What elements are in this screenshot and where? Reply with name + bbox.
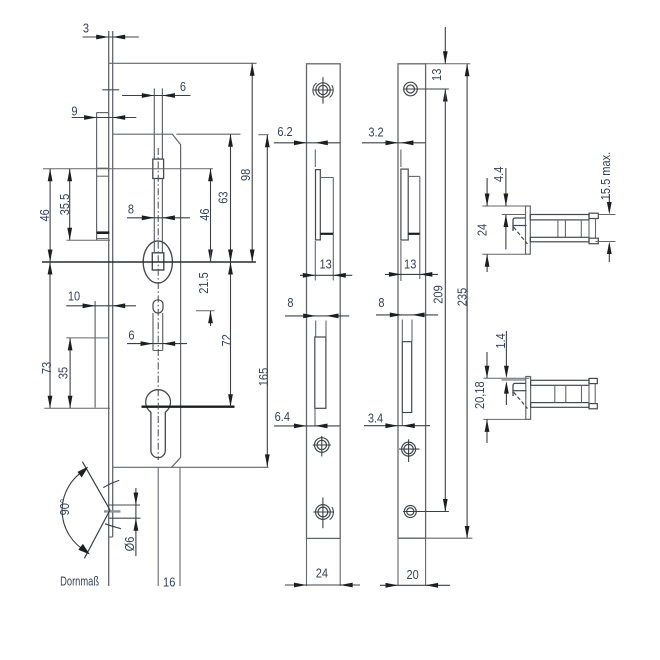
svg-text:209: 209	[430, 285, 445, 304]
dim 209 line	[444, 89, 446, 512]
plate2 screw hole middle	[404, 444, 413, 453]
svg-text:35: 35	[55, 367, 70, 380]
ext line top d2	[483, 377, 529, 379]
centerline extended below case (16 dim)	[157, 467, 159, 586]
svg-text:4.4: 4.4	[491, 166, 506, 182]
90deg arc	[62, 471, 85, 551]
euro profile cylinder hole	[146, 390, 171, 458]
plate1 lower slot	[315, 321, 317, 337]
detail2 bolt ladder	[531, 380, 589, 385]
dim 8 upper slot square	[127, 217, 190, 219]
dim 4.4	[505, 168, 507, 206]
detail2 right flange bottom tab	[589, 404, 597, 409]
svg-text:13: 13	[404, 257, 417, 272]
ext line top	[482, 205, 525, 207]
plate2 top extension line	[426, 63, 471, 65]
svg-text:1.4: 1.4	[493, 333, 508, 349]
svg-text:3.2: 3.2	[368, 124, 384, 139]
cover strip divider 2	[97, 175, 109, 177]
upper slot right line lower part	[161, 179, 163, 253]
extension line y=310.8 for 21.5	[196, 310, 215, 312]
follower 8mm square hole	[152, 253, 164, 270]
tick across upper leg	[103, 480, 119, 487]
plate2 bottom + dim 20	[398, 537, 472, 539]
faceplate front edge (full height)	[108, 31, 110, 586]
thick reference line y=406.7 (72/35/73 bottom)	[142, 406, 235, 408]
svg-text:21.5: 21.5	[196, 272, 211, 294]
lock case outline top/right	[113, 134, 181, 467]
plate1 screw hole bottom	[318, 507, 328, 517]
cover strip divider 1	[97, 167, 109, 169]
Ø6 centerline tick (thick gray)	[104, 510, 121, 512]
small oval hole (capsule)	[153, 300, 163, 313]
svg-text:165: 165	[256, 368, 271, 387]
dim 15.5 max	[598, 214, 615, 216]
90deg leg upper	[82, 462, 110, 510]
lower slot left line	[152, 313, 154, 351]
extension line y=168.7 (46/35.5 top ref)	[43, 168, 213, 170]
ext line bottom	[482, 253, 525, 255]
plate2 screw hole top	[407, 85, 415, 93]
svg-text:72: 72	[219, 334, 234, 347]
dim 98	[251, 63, 253, 262]
cover strip left edge	[96, 113, 98, 241]
dim 13 top right	[444, 27, 446, 64]
ext line bottom d2	[483, 418, 530, 420]
follower horizontal centerline y=262	[42, 261, 256, 263]
case bottom edge + extension for 165	[113, 466, 269, 468]
front element edge (10 dim)	[94, 301, 96, 408]
vertical dash-dot centerline	[157, 148, 159, 460]
detail1 right flange top tab	[589, 213, 598, 218]
plate1 latch lip and opening	[314, 150, 316, 168]
upper slot left line lower part	[153, 179, 155, 253]
lower slot right line	[162, 313, 164, 351]
dim 6.2	[274, 142, 340, 144]
svg-text:24: 24	[316, 565, 329, 580]
dim 35.5	[69, 169, 71, 241]
svg-text:Ø6: Ø6	[122, 536, 137, 551]
svg-text:Dornmaß: Dornmaß	[60, 575, 99, 589]
dim 6.4	[274, 425, 340, 427]
upper slot left line	[153, 88, 155, 159]
svg-text:35.5: 35.5	[57, 193, 72, 215]
svg-text:8: 8	[128, 201, 134, 216]
svg-text:6.2: 6.2	[277, 124, 293, 139]
upper square (8mm pin)	[153, 159, 164, 178]
svg-text:15.5 max.: 15.5 max.	[598, 152, 613, 200]
plate 1 outline	[307, 64, 341, 539]
upper slot right line	[161, 88, 163, 159]
plate2 screw hole bottom	[407, 508, 414, 515]
dim 8 plate2	[376, 314, 438, 316]
arc arrowhead lower	[78, 544, 90, 555]
svg-text:20,18: 20,18	[472, 381, 487, 409]
svg-text:63: 63	[216, 191, 231, 204]
faceplate back edge	[112, 31, 114, 537]
dim 46 left	[49, 169, 51, 262]
dim 21.5	[210, 247, 212, 262]
90deg leg lower	[84, 510, 110, 558]
cover strip thick band	[97, 231, 110, 234]
arc arrowhead upper	[78, 467, 89, 478]
Ø6 hole upper line	[109, 504, 140, 506]
dim 6 lower slot	[127, 343, 187, 345]
svg-text:24: 24	[474, 224, 489, 237]
cover strip top edge	[97, 112, 109, 114]
plate1 screw hole middle	[317, 440, 326, 449]
svg-text:13: 13	[319, 257, 332, 272]
faceplate top edge + extension line for 98	[109, 62, 257, 64]
svg-text:46: 46	[197, 208, 212, 221]
dim 63	[230, 134, 232, 262]
dim 24 detail	[486, 178, 488, 206]
dim 3.2	[362, 142, 426, 144]
dim 235	[466, 64, 468, 539]
dim 8 plate1	[285, 315, 349, 317]
svg-text:8: 8	[378, 295, 384, 310]
svg-text:98: 98	[238, 168, 253, 181]
dim 13 plate1	[300, 274, 352, 276]
dim 35	[69, 338, 71, 408]
svg-text:3.4: 3.4	[368, 410, 384, 425]
dim 9	[72, 117, 137, 119]
plate2 latch lip and opening	[400, 150, 402, 168]
detail1 cam block	[513, 218, 526, 231]
svg-text:235: 235	[454, 288, 469, 307]
svg-text:73: 73	[39, 362, 54, 375]
dim 72	[230, 262, 232, 407]
svg-text:3: 3	[83, 20, 89, 35]
detail2 right flange top tab	[589, 378, 597, 383]
plate1 screw hole top	[318, 85, 327, 94]
rail top ref line left d2	[502, 379, 526, 381]
Ø6 hole lower line	[109, 517, 141, 519]
svg-text:20: 20	[406, 567, 419, 582]
svg-text:8: 8	[287, 295, 293, 310]
cover strip bottom edge	[97, 238, 109, 240]
follower oval	[143, 241, 172, 283]
dim 10	[66, 305, 136, 307]
detail1 faceplate bar	[526, 206, 531, 254]
rail top ref line left	[502, 214, 526, 216]
svg-text:90°: 90°	[57, 498, 72, 515]
svg-text:46: 46	[37, 209, 52, 222]
svg-text:10: 10	[68, 288, 81, 303]
dim 1.4	[505, 331, 507, 366]
dim 46 right	[210, 169, 212, 262]
detail1 bolt ladder	[530, 215, 589, 220]
svg-text:9: 9	[71, 103, 77, 118]
svg-text:6.4: 6.4	[275, 409, 291, 424]
svg-text:6: 6	[128, 327, 134, 342]
dim 3 (faceplate thickness)	[83, 36, 139, 38]
svg-text:16: 16	[163, 574, 176, 589]
dim diameter 6	[135, 488, 137, 556]
dim 73	[49, 262, 51, 408]
plate2 lower slot	[401, 320, 403, 342]
dim 6 upper slot	[122, 95, 191, 97]
dim 20,18	[486, 352, 488, 378]
dim 3.4	[364, 425, 430, 427]
dim 165	[266, 135, 268, 467]
case top extension line for 63	[176, 133, 240, 135]
lower slot bottom	[153, 350, 163, 352]
svg-text:6: 6	[180, 79, 186, 94]
tick on faceplate y=90	[102, 89, 119, 91]
dim 24 plate1	[306, 538, 308, 586]
detail2 cam block	[513, 383, 526, 396]
svg-text:13: 13	[429, 68, 444, 81]
plate 2 outline	[398, 64, 426, 538]
detail1 right flange bottom tab	[589, 238, 598, 244]
detail2 faceplate bar	[526, 377, 531, 420]
dim 13 plate2	[385, 273, 438, 275]
tick across lower leg	[105, 524, 121, 529]
case right edge extended down (16 dim)	[179, 467, 181, 586]
faceplate lower end closing	[109, 536, 113, 538]
